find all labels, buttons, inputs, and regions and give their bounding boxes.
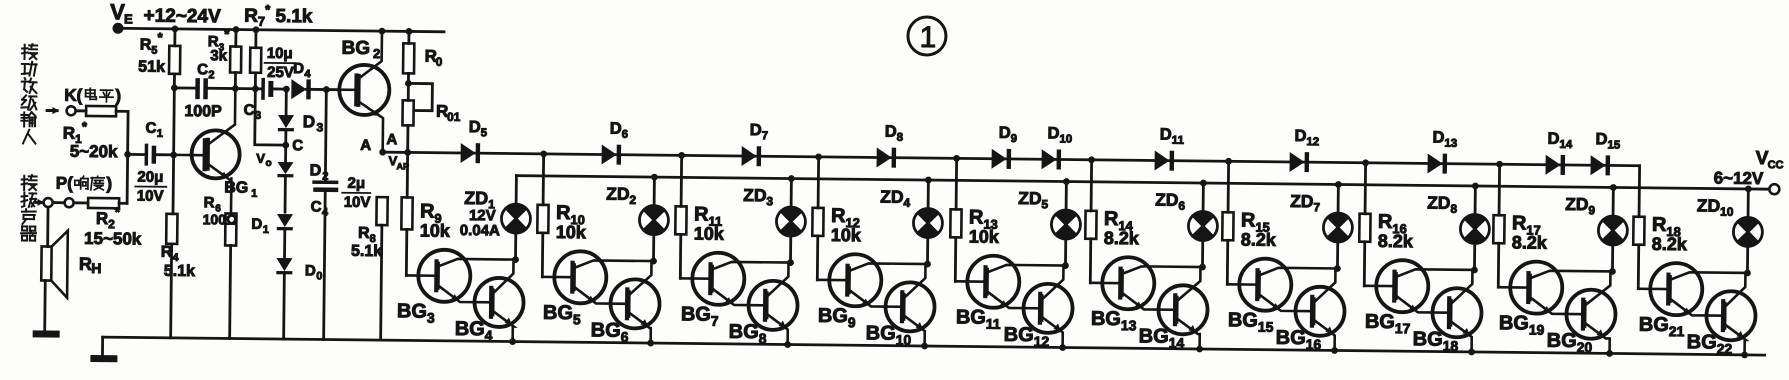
junction [540, 150, 547, 157]
svg-text:ZD7: ZD7 [1290, 191, 1321, 214]
node A [383, 151, 408, 154]
transistor BG6 [610, 279, 660, 329]
svg-text:4: 4 [304, 68, 311, 80]
resistor R4 [166, 214, 177, 244]
svg-text:8.2k: 8.2k [1652, 234, 1688, 254]
junction [1362, 159, 1369, 166]
lamp ZD3 [790, 179, 793, 207]
svg-text:100Ω: 100Ω [203, 211, 238, 227]
svg-text:ZD9: ZD9 [1565, 194, 1596, 217]
svg-text:5.1k: 5.1k [164, 263, 195, 280]
svg-text:6~12V: 6~12V [1714, 169, 1764, 189]
svg-text:R: R [358, 225, 370, 242]
svg-text:1: 1 [251, 188, 257, 200]
svg-text:ZD4: ZD4 [880, 187, 911, 210]
junction [1088, 156, 1095, 163]
transistor BG22 [1706, 291, 1756, 341]
junction [1468, 349, 1475, 356]
wire input stub P [36, 201, 42, 204]
lamp ZD7 [1337, 184, 1340, 212]
junction [252, 85, 259, 92]
svg-text:8.2k: 8.2k [1512, 232, 1548, 252]
wire input stub K [47, 109, 57, 112]
resistor R15 [1227, 161, 1230, 212]
resistor R8 [376, 197, 387, 225]
diode D9 [992, 149, 1007, 169]
node C [282, 142, 289, 149]
diode D6 [602, 145, 617, 165]
transistor BG3 [418, 250, 471, 303]
capacitor C1 [128, 153, 147, 156]
svg-text:BG7: BG7 [681, 303, 719, 328]
svg-text:10V: 10V [137, 187, 164, 204]
svg-text:1: 1 [157, 128, 163, 140]
transistor BG14 [1158, 285, 1208, 335]
junction [647, 340, 654, 347]
svg-text:): ) [115, 86, 121, 105]
wire node line [174, 86, 195, 89]
resistor R11 [680, 155, 683, 206]
svg-text:10μ: 10μ [267, 45, 293, 62]
transistor BG9 [829, 254, 882, 307]
junction [1606, 350, 1613, 357]
transistor BG11 [967, 255, 1020, 308]
resistor R7 [254, 30, 257, 48]
svg-text:BG16: BG16 [1276, 327, 1322, 352]
svg-text:100P: 100P [184, 103, 222, 120]
lamp ZD6 [1202, 183, 1205, 211]
wire Vcc lamp rail [516, 176, 1769, 190]
svg-text:ZD3: ZD3 [743, 185, 774, 208]
svg-text:A: A [386, 131, 397, 148]
svg-text:3: 3 [317, 120, 324, 134]
junction [921, 343, 928, 350]
svg-text:2: 2 [373, 46, 380, 61]
transistor BG13 [1102, 257, 1155, 310]
svg-text:D9: D9 [999, 124, 1018, 145]
junction [509, 338, 516, 345]
node K terminal [67, 106, 76, 115]
transistor BG16 [1295, 287, 1345, 337]
svg-text:5~20k: 5~20k [70, 142, 118, 162]
svg-text:K(: K( [64, 86, 82, 105]
junction [784, 341, 791, 348]
wire [53, 201, 64, 204]
svg-text:BG10: BG10 [866, 322, 912, 347]
lamp ZD4 [927, 180, 930, 208]
svg-text:ZD5: ZD5 [1018, 188, 1049, 211]
svg-text:E: E [124, 11, 133, 26]
junction [1331, 347, 1338, 354]
svg-text:ZD2: ZD2 [606, 184, 637, 207]
svg-text:5.1k: 5.1k [351, 243, 382, 260]
wire threshold rail [408, 152, 1640, 165]
svg-text:D: D [310, 162, 322, 179]
svg-text:BG: BG [341, 38, 370, 59]
svg-text:10k: 10k [831, 225, 862, 245]
svg-text:10k: 10k [694, 224, 725, 244]
resistor R5 [173, 29, 176, 46]
node P terminal 2 [65, 198, 74, 207]
wire R01 jog [408, 83, 432, 110]
resistor R12 [817, 157, 820, 208]
junction [1196, 346, 1203, 353]
svg-text:2μ: 2μ [347, 175, 365, 192]
svg-text:BG13: BG13 [1091, 308, 1137, 333]
capacitor C3 [255, 87, 261, 90]
svg-text:V: V [110, 0, 125, 24]
svg-text:D5: D5 [469, 118, 488, 139]
diode D15 [1590, 155, 1605, 175]
svg-text:10k: 10k [420, 221, 451, 241]
svg-text:BG20: BG20 [1547, 330, 1593, 355]
diode D3 [285, 89, 288, 115]
svg-text:BG15: BG15 [1228, 309, 1274, 334]
transistor BG19 [1510, 261, 1563, 314]
svg-text:0: 0 [436, 55, 443, 69]
ground [101, 337, 104, 355]
resistor R17 [1498, 164, 1501, 215]
node P terminal [44, 198, 53, 207]
transistor BG12 [1023, 284, 1073, 334]
resistor R3 [234, 30, 237, 47]
junction [171, 84, 178, 91]
svg-text:BG3: BG3 [397, 300, 435, 325]
svg-text:BG14: BG14 [1139, 325, 1185, 350]
svg-text:R: R [79, 254, 92, 274]
svg-text:D12: D12 [1294, 127, 1319, 148]
diode D10 [1042, 149, 1057, 169]
svg-text:BG12: BG12 [1004, 324, 1050, 349]
svg-text:8.2k: 8.2k [1241, 229, 1277, 249]
svg-text:V: V [256, 151, 265, 166]
diode D8 [877, 147, 892, 167]
diode D5 [461, 143, 476, 163]
svg-text:o: o [265, 158, 271, 169]
resistor R0 [407, 31, 410, 43]
capacitor C4 [324, 90, 328, 181]
svg-text:BG: BG [224, 179, 248, 196]
svg-text:ZD10: ZD10 [1697, 195, 1734, 218]
junction [678, 152, 685, 159]
transistor BG18 [1432, 288, 1482, 338]
resistor R9 [406, 152, 409, 197]
svg-text:BG11: BG11 [956, 306, 1001, 331]
lamp ZD10 [1747, 189, 1750, 217]
svg-text:ZD6: ZD6 [1155, 190, 1186, 213]
svg-text:ZD8: ZD8 [1427, 192, 1458, 215]
svg-text:BG5: BG5 [543, 302, 581, 327]
diode D13 [1427, 153, 1442, 173]
label circled 1 [908, 17, 946, 55]
svg-text:BG22: BG22 [1687, 331, 1733, 356]
svg-text:D10: D10 [1047, 124, 1072, 145]
svg-text:BG18: BG18 [1413, 328, 1459, 353]
svg-text:BG17: BG17 [1365, 311, 1411, 336]
svg-text:C: C [311, 198, 322, 215]
junction [124, 151, 131, 158]
svg-text:51k: 51k [138, 58, 165, 75]
transistor BG8 [748, 281, 798, 331]
svg-text:CC: CC [1768, 159, 1784, 171]
svg-text:D: D [305, 262, 316, 279]
svg-text:R: R [204, 194, 215, 211]
diode D12 [1290, 152, 1305, 172]
resistor R14 [1090, 160, 1093, 211]
svg-text:BG9: BG9 [818, 305, 856, 330]
svg-text:): ) [106, 174, 112, 193]
diode D11 [1155, 151, 1170, 171]
vertical text: to speaker [23, 176, 25, 190]
svg-text:1: 1 [919, 21, 936, 54]
wire ground rail [103, 337, 1765, 355]
svg-text:+12~24V: +12~24V [143, 6, 221, 28]
transistor BG7 [692, 253, 745, 306]
svg-text:C: C [197, 61, 208, 78]
transistor BG17 [1376, 260, 1429, 313]
resistor R13 [955, 158, 958, 209]
diode D4 [291, 79, 306, 99]
resistor R1 [76, 109, 86, 112]
wire top supply rail [123, 28, 444, 31]
lamp ZD1 [515, 176, 518, 204]
junction [405, 80, 412, 87]
ground [33, 330, 60, 337]
resistor R18 [1638, 166, 1641, 217]
svg-text:15~50k: 15~50k [84, 229, 142, 249]
junction [1059, 344, 1066, 351]
svg-text:10k: 10k [969, 226, 1000, 246]
lamp ZD9 [1612, 187, 1615, 215]
svg-text:2: 2 [208, 69, 214, 81]
svg-text:8.2k: 8.2k [1378, 231, 1414, 251]
svg-text:25V: 25V [267, 64, 294, 81]
svg-text:D15: D15 [1595, 130, 1621, 151]
capacitor C2 [195, 78, 200, 99]
svg-text:BG19: BG19 [1499, 312, 1545, 337]
lamp ZD2 [653, 177, 656, 205]
junction [953, 155, 960, 162]
svg-text:P(: P( [56, 174, 74, 193]
node Vcc terminal [1769, 184, 1779, 194]
junction [815, 153, 822, 160]
wire speaker feed [46, 208, 49, 247]
svg-text:BG21: BG21 [1639, 314, 1685, 339]
svg-text:4: 4 [322, 206, 329, 218]
node VE supply terminal [112, 23, 123, 34]
svg-text:A: A [360, 137, 371, 154]
diode D0 [276, 258, 292, 271]
junction [1225, 158, 1232, 165]
transistor BG2 [339, 65, 390, 116]
resistor R10 [542, 154, 545, 205]
diode D2 [284, 145, 287, 162]
diode D1 [277, 214, 293, 227]
wire Vo tie [255, 89, 287, 145]
junction [172, 25, 179, 32]
svg-text:C: C [145, 120, 156, 137]
wire [235, 87, 255, 90]
transistor BG15 [1239, 258, 1292, 311]
svg-text:D11: D11 [1160, 126, 1185, 147]
transistor BG20 [1566, 289, 1616, 339]
svg-text:R7* 5.1k: R7* 5.1k [244, 2, 313, 30]
svg-text:D6: D6 [610, 120, 629, 141]
wire [43, 281, 46, 331]
svg-text:20μ: 20μ [137, 168, 163, 185]
resistor R16 [1364, 163, 1367, 214]
transistor BG21 [1650, 263, 1703, 316]
transistor BG10 [885, 282, 935, 332]
svg-text:H: H [91, 260, 101, 276]
svg-text:01: 01 [447, 110, 461, 124]
resistor R6 [225, 213, 236, 245]
transistor BG1 [191, 130, 240, 179]
svg-text:8.2k: 8.2k [1104, 228, 1140, 248]
svg-text:C: C [244, 102, 255, 119]
junction [1496, 161, 1503, 168]
svg-text:3k: 3k [210, 47, 228, 64]
svg-text:C: C [292, 137, 303, 154]
wire R1 to C1 node [126, 111, 130, 203]
resistor R01 [402, 100, 413, 125]
svg-text:R: R [161, 244, 173, 261]
svg-text:0.04A: 0.04A [460, 222, 500, 239]
svg-text:D: D [303, 112, 315, 131]
svg-text:D: D [251, 216, 262, 233]
transistor BG4 [474, 278, 524, 328]
junction [1741, 351, 1748, 358]
junction [232, 85, 239, 92]
svg-text:D8: D8 [885, 123, 904, 144]
svg-text:D7: D7 [750, 121, 769, 142]
svg-text:0: 0 [316, 270, 322, 282]
svg-text:D13: D13 [1432, 129, 1457, 150]
diode D7 [742, 146, 757, 166]
transistor BG5 [554, 251, 607, 304]
svg-text:10V: 10V [344, 194, 371, 211]
junction [283, 86, 290, 93]
diode D14 [1545, 155, 1560, 175]
svg-text:10k: 10k [556, 222, 587, 242]
svg-text:D14: D14 [1547, 130, 1573, 151]
lamp ZD5 [1065, 182, 1068, 210]
vertical text: to power amp input [24, 45, 26, 59]
speaker RH [41, 246, 51, 280]
resistor R2 [74, 201, 88, 204]
svg-text:D: D [293, 60, 304, 77]
svg-text:R5*: R5* [140, 30, 164, 57]
lamp ZD8 [1474, 186, 1477, 214]
svg-text:1: 1 [263, 224, 269, 236]
